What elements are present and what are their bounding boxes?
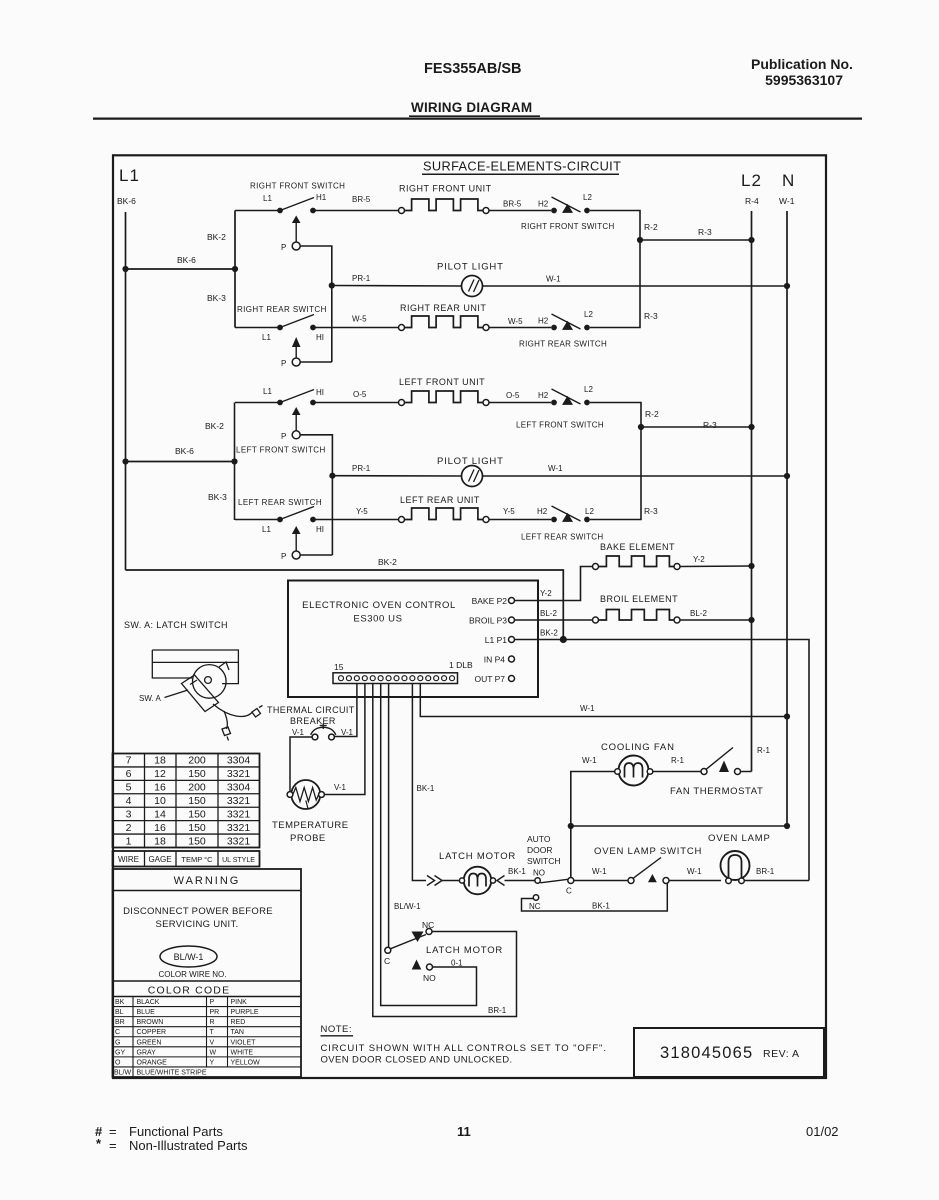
svg-text:LEFT REAR UNIT: LEFT REAR UNIT [400, 495, 480, 505]
svg-text:BROWN: BROWN [137, 1019, 164, 1026]
wire pin10 latch NO loop [381, 684, 477, 1006]
svg-text:Non-Illustrated Parts: Non-Illustrated Parts [129, 1138, 248, 1153]
svg-text:BK-2: BK-2 [378, 557, 397, 567]
svg-text:OUT P7: OUT P7 [474, 674, 505, 684]
junction [784, 283, 790, 289]
svg-text:L1: L1 [262, 333, 271, 342]
wire R-4 bus vertical [751, 211, 753, 772]
svg-text:3321: 3321 [227, 822, 251, 834]
svg-text:P: P [281, 432, 286, 441]
svg-text:5995363107: 5995363107 [765, 72, 843, 88]
svg-text:V-1: V-1 [341, 728, 354, 737]
svg-text:BR-5: BR-5 [503, 200, 522, 209]
wire R-3 to R-4 bus 2 [641, 426, 752, 428]
wire H1 to unit BR-5 [313, 210, 399, 212]
svg-text:WARNING: WARNING [174, 875, 241, 887]
junction [748, 237, 754, 243]
switch blade [552, 314, 581, 329]
resistor BAKE ELEMENT [598, 556, 674, 567]
wire [235, 402, 280, 404]
node L1 [277, 325, 283, 331]
switch plunger arrow [292, 526, 301, 534]
svg-text:Y: Y [210, 1059, 215, 1066]
svg-text:L1 P1: L1 P1 [485, 635, 507, 645]
svg-text:R: R [210, 1019, 215, 1026]
svg-text:THERMAL CIRCUIT: THERMAL CIRCUIT [267, 705, 355, 715]
svg-text:BLUE/WHITE STRIPE: BLUE/WHITE STRIPE [137, 1069, 207, 1076]
part number box [634, 1028, 824, 1077]
svg-text:R-1: R-1 [671, 756, 684, 765]
svg-text:DISCONNECT POWER BEFORE: DISCONNECT POWER BEFORE [123, 906, 273, 917]
svg-text:Y-5: Y-5 [356, 507, 368, 516]
svg-text:N: N [782, 171, 794, 190]
svg-text:PROBE: PROBE [290, 833, 326, 844]
svg-text:150: 150 [188, 835, 206, 847]
svg-text:150: 150 [188, 795, 206, 807]
node H2 [551, 325, 557, 331]
svg-text:SW. A: LATCH SWITCH: SW. A: LATCH SWITCH [124, 620, 228, 630]
svg-text:BROIL ELEMENT: BROIL ELEMENT [600, 594, 678, 604]
wire switch to oven lamp W-1 [669, 880, 721, 882]
svg-text:R-2: R-2 [645, 409, 659, 419]
svg-text:HI: HI [316, 333, 324, 342]
svg-text:V-1: V-1 [292, 728, 305, 737]
wire W-1 pilot 2 to W-1 bus [483, 475, 788, 477]
wire pin11 BR-1 latch NC loop [373, 684, 517, 1017]
junction [329, 282, 335, 288]
wire unit to H2 W-5 [489, 327, 551, 329]
svg-text:P: P [281, 243, 286, 252]
svg-text:G: G [115, 1039, 120, 1046]
resistor RIGHT REAR UNIT [404, 316, 483, 328]
svg-text:PURPLE: PURPLE [231, 1009, 259, 1016]
svg-text:5: 5 [126, 782, 132, 794]
svg-text:11: 11 [457, 1124, 471, 1139]
wire C to W-1 row [570, 826, 572, 878]
svg-text:HI: HI [316, 525, 324, 534]
svg-text:BROIL P3: BROIL P3 [469, 616, 507, 626]
svg-text:GAGE: GAGE [148, 855, 171, 864]
wire pin13 to thermal breaker [334, 684, 357, 737]
svg-text:W-1: W-1 [592, 867, 607, 876]
svg-text:WIRE: WIRE [118, 855, 139, 864]
warning box [113, 869, 302, 1077]
svg-text:Publication No.: Publication No. [751, 56, 853, 72]
svg-text:BK-1: BK-1 [508, 867, 526, 876]
latch switch SW.A drawing [152, 650, 262, 741]
switch blade [280, 390, 314, 403]
wire W-1 pilot to W-1 bus [483, 285, 788, 287]
svg-text:FAN THERMOSTAT: FAN THERMOSTAT [670, 786, 763, 797]
wire BK-6 upper branch [126, 268, 236, 270]
svg-text:W-1: W-1 [687, 867, 702, 876]
wire unit to H2 BR-5 [489, 210, 551, 212]
wire pin9 BL/W-1 to latch switch C [388, 684, 390, 948]
header rule [93, 117, 862, 119]
svg-text:16: 16 [154, 822, 166, 834]
svg-text:R-2: R-2 [644, 222, 658, 232]
svg-text:Y-2: Y-2 [693, 555, 705, 564]
svg-text:GY: GY [115, 1049, 125, 1056]
svg-text:3: 3 [126, 808, 132, 820]
thermistor temperature probe [291, 780, 320, 809]
svg-text:W-1: W-1 [546, 275, 561, 284]
wire [295, 223, 297, 242]
svg-text:GRAY: GRAY [137, 1049, 157, 1056]
svg-text:L1: L1 [262, 525, 271, 534]
svg-text:BL/W-1: BL/W-1 [174, 952, 204, 962]
svg-text:16: 16 [154, 782, 166, 794]
svg-text:R-3: R-3 [698, 227, 712, 237]
svg-text:2: 2 [126, 822, 132, 834]
motor M1 latch motor [464, 867, 492, 895]
motor M2 cooling fan [619, 756, 649, 786]
node H1 [310, 208, 316, 214]
wire BAKE P2 to element [515, 567, 593, 601]
svg-text:14: 14 [154, 808, 166, 820]
svg-text:NO: NO [423, 973, 436, 983]
svg-text:18: 18 [154, 755, 166, 767]
switch plunger arrow [292, 407, 301, 415]
svg-text:Y-2: Y-2 [540, 589, 552, 598]
svg-text:W-1: W-1 [779, 196, 795, 206]
junction [568, 823, 574, 829]
node H1 [310, 400, 316, 406]
connector chevrons [427, 876, 442, 886]
svg-text:L1: L1 [263, 387, 272, 396]
lamp PILOT LIGHT lower [462, 466, 483, 487]
svg-text:L2: L2 [741, 171, 762, 190]
svg-text:COOLING FAN: COOLING FAN [601, 742, 675, 753]
svg-text:PILOT LIGHT: PILOT LIGHT [437, 262, 504, 273]
junction [784, 713, 790, 719]
svg-text:150: 150 [188, 768, 206, 780]
diagram border frame [113, 155, 826, 1078]
wire Y-2 to R-4 bus [680, 565, 752, 568]
switch fan thermostat [701, 769, 707, 775]
svg-text:BR-1: BR-1 [756, 867, 775, 876]
node L2 [584, 208, 590, 214]
svg-text:BLACK: BLACK [137, 999, 160, 1006]
svg-text:SWITCH: SWITCH [527, 856, 561, 866]
svg-text:NC: NC [529, 902, 541, 911]
wire BL-2 to R-4 bus [680, 619, 752, 621]
svg-text:H1: H1 [316, 193, 327, 202]
svg-text:0-1: 0-1 [451, 959, 463, 968]
junction [748, 563, 754, 569]
switch blade [552, 506, 581, 521]
node L1 [277, 208, 283, 214]
junction [122, 266, 128, 272]
wire L2 to R-3 riser 2 [590, 427, 641, 520]
svg-text:TAN: TAN [231, 1029, 244, 1036]
wire [235, 327, 280, 329]
switch arrow [562, 204, 573, 213]
terminal NO lower latch [412, 960, 422, 970]
junction [748, 617, 754, 623]
lamp PILOT LIGHT upper [462, 276, 483, 297]
svg-text:200: 200 [188, 782, 206, 794]
svg-text:3304: 3304 [227, 755, 251, 767]
node H2 [551, 400, 557, 406]
svg-text:=: = [109, 1124, 117, 1139]
svg-text:15: 15 [334, 662, 344, 672]
wire pin5 W-1 row [420, 684, 787, 717]
wire L2 to R-2 drop 2 [590, 403, 641, 428]
resistor LEFT REAR UNIT [404, 508, 483, 520]
wire W-1 to cooling fan [571, 772, 615, 827]
svg-text:BL-2: BL-2 [690, 609, 707, 618]
svg-text:R-4: R-4 [745, 196, 759, 206]
svg-text:10: 10 [154, 795, 166, 807]
wire pin6 BK-1 to latch motor [412, 684, 426, 881]
svg-text:3321: 3321 [227, 768, 251, 780]
switch latch motor C-NC-NO [385, 947, 391, 953]
wire W-1 lamp row [571, 825, 787, 827]
svg-text:LEFT REAR SWITCH: LEFT REAR SWITCH [238, 498, 322, 507]
svg-text:1: 1 [126, 835, 132, 847]
svg-text:OVEN DOOR CLOSED AND UNLOCKED.: OVEN DOOR CLOSED AND UNLOCKED. [321, 1055, 513, 1066]
svg-text:3321: 3321 [227, 808, 251, 820]
wire motor to NO chevron [497, 876, 505, 886]
svg-text:LEFT FRONT SWITCH: LEFT FRONT SWITCH [236, 446, 326, 455]
wire BK-2 left-front bus [234, 403, 236, 521]
svg-text:AUTO: AUTO [527, 834, 551, 844]
svg-text:200: 200 [188, 755, 206, 767]
svg-text:=: = [109, 1138, 117, 1153]
svg-text:H2: H2 [538, 317, 549, 326]
svg-text:150: 150 [188, 808, 206, 820]
svg-text:R-1: R-1 [757, 746, 770, 755]
wire [295, 415, 297, 431]
svg-text:Functional Parts: Functional Parts [129, 1124, 223, 1139]
svg-text:BL: BL [115, 1009, 124, 1016]
node H1 [310, 517, 316, 523]
connector strip [333, 673, 458, 684]
svg-text:LATCH MOTOR: LATCH MOTOR [426, 945, 503, 956]
switch plunger arrow [292, 337, 301, 347]
wire gauge table [113, 754, 260, 848]
svg-text:W-5: W-5 [508, 317, 523, 326]
wire H1 to unit O-5 [313, 402, 399, 404]
switch arrow [562, 513, 573, 522]
svg-text:FES355AB/SB: FES355AB/SB [424, 61, 522, 77]
node L1 [277, 517, 283, 523]
svg-text:BL-2: BL-2 [540, 609, 557, 618]
junction [560, 636, 567, 643]
wire H1 to unit W-5 [313, 327, 399, 329]
wire pin12 V-1 to temperature probe [324, 684, 365, 795]
svg-text:R-3: R-3 [703, 420, 717, 430]
node H2 [551, 517, 557, 523]
svg-text:O-5: O-5 [353, 390, 367, 399]
svg-text:H2: H2 [538, 200, 549, 209]
svg-text:RIGHT REAR UNIT: RIGHT REAR UNIT [400, 303, 486, 313]
svg-text:6: 6 [126, 768, 132, 780]
svg-text:W-1: W-1 [580, 704, 595, 713]
svg-text:BL/W-1: BL/W-1 [394, 902, 421, 911]
wire PR-1 to pilot light 2 [332, 475, 461, 477]
svg-text:T: T [210, 1029, 215, 1036]
switch blade [280, 198, 314, 211]
wire L2 to R-2 drop [590, 211, 640, 241]
svg-text:3304: 3304 [227, 782, 251, 794]
svg-text:ES300 US: ES300 US [353, 614, 402, 625]
svg-text:V-1: V-1 [334, 783, 347, 792]
svg-text:BAKE P2: BAKE P2 [472, 596, 508, 606]
node H2 [551, 208, 557, 214]
svg-text:C: C [384, 956, 390, 966]
wire NC stub to oven lamp switch [522, 884, 668, 912]
svg-text:BK-2: BK-2 [207, 232, 226, 242]
svg-text:YELLOW: YELLOW [231, 1059, 261, 1066]
resistor BROIL ELEMENT [598, 610, 674, 621]
svg-text:VIOLET: VIOLET [231, 1039, 257, 1046]
svg-text:318045065: 318045065 [660, 1044, 753, 1062]
junction [784, 823, 790, 829]
svg-text:BK-2: BK-2 [205, 421, 224, 431]
svg-text:LEFT REAR SWITCH: LEFT REAR SWITCH [521, 533, 603, 542]
svg-text:BR-1: BR-1 [488, 1006, 507, 1015]
svg-text:BK: BK [115, 999, 125, 1006]
switch blade [552, 389, 581, 404]
breaker CB1 [312, 734, 318, 740]
svg-text:18: 18 [154, 835, 166, 847]
svg-text:BLUE: BLUE [137, 1009, 156, 1016]
svg-text:NOTE:: NOTE: [321, 1024, 353, 1035]
svg-text:BREAKER: BREAKER [290, 716, 336, 726]
svg-text:BK-6: BK-6 [175, 446, 194, 456]
svg-text:SW. A: SW. A [139, 694, 161, 703]
svg-text:W: W [210, 1049, 217, 1056]
svg-text:IN P4: IN P4 [484, 655, 506, 665]
svg-text:BK-3: BK-3 [208, 492, 227, 502]
svg-text:P: P [281, 552, 286, 561]
svg-text:L2: L2 [584, 385, 593, 394]
svg-text:LEFT FRONT UNIT: LEFT FRONT UNIT [399, 377, 485, 387]
svg-text:BK-6: BK-6 [117, 196, 136, 206]
wire C to oven lamp switch W-1 [574, 880, 628, 882]
svg-text:Y-5: Y-5 [503, 507, 515, 516]
svg-text:RIGHT FRONT UNIT: RIGHT FRONT UNIT [399, 184, 492, 194]
svg-text:01/02: 01/02 [806, 1124, 839, 1139]
svg-text:PR-1: PR-1 [352, 274, 371, 283]
svg-text:LATCH MOTOR: LATCH MOTOR [439, 851, 516, 862]
switch arrow [562, 396, 573, 405]
svg-text:TEMP °C: TEMP °C [181, 855, 213, 864]
svg-text:ORANGE: ORANGE [137, 1059, 168, 1066]
svg-text:PINK: PINK [231, 999, 248, 1006]
resistor RIGHT FRONT UNIT [404, 199, 483, 211]
svg-text:O-5: O-5 [506, 391, 520, 400]
wire [295, 534, 297, 551]
svg-text:1 DLB: 1 DLB [449, 660, 473, 670]
wire R-3 to R-4 bus [640, 239, 752, 241]
lamp oven lamp [721, 851, 750, 880]
terminal NC auto door [533, 895, 538, 900]
junction [748, 424, 754, 430]
wire BROIL P3 to element [515, 619, 594, 621]
wire P to PR-1 bus 2 [300, 435, 332, 555]
svg-text:4: 4 [126, 795, 132, 807]
junction [232, 266, 238, 272]
svg-text:BK-1: BK-1 [417, 784, 435, 793]
switch blade [280, 315, 314, 328]
svg-text:L1: L1 [263, 194, 272, 203]
svg-text:RIGHT FRONT SWITCH: RIGHT FRONT SWITCH [250, 182, 345, 191]
wire W-1 bus vertical [786, 211, 788, 826]
wire gauge table header [113, 851, 260, 867]
wire BK-2 bottom of surface section [126, 570, 564, 640]
svg-text:O: O [115, 1059, 121, 1066]
junction [122, 458, 128, 464]
wire P to PR-1 bus [300, 361, 332, 363]
node H1 [310, 325, 316, 331]
svg-text:UL STYLE: UL STYLE [222, 857, 255, 864]
svg-text:OVEN LAMP: OVEN LAMP [708, 833, 771, 844]
wire L1 bus BK-6 vertical [125, 212, 127, 570]
switch plunger arrow [292, 216, 301, 224]
svg-text:PR: PR [210, 1009, 220, 1016]
wire BK-2 right-front bus [234, 211, 236, 328]
junction [784, 473, 790, 479]
node L2 [584, 400, 590, 406]
svg-text:COLOR WIRE NO.: COLOR WIRE NO. [158, 970, 226, 979]
junction [231, 458, 237, 464]
svg-text:BK-2: BK-2 [540, 629, 558, 638]
wire [235, 210, 280, 212]
svg-text:BR: BR [115, 1019, 125, 1026]
wire P to PR-1 bus 2 lower [300, 554, 332, 556]
junction [637, 237, 643, 243]
svg-text:GREEN: GREEN [137, 1039, 162, 1046]
svg-text:WHITE: WHITE [231, 1049, 254, 1056]
wire lamp BR-1 to L1 P1 loop [744, 880, 809, 882]
junction [638, 424, 644, 430]
svg-text:BL/W: BL/W [114, 1069, 132, 1076]
svg-text:COLOR CODE: COLOR CODE [148, 985, 231, 997]
svg-text:7: 7 [126, 755, 132, 767]
svg-text:L1: L1 [119, 166, 140, 185]
svg-text:L2: L2 [584, 310, 593, 319]
node L1 [277, 400, 283, 406]
svg-text:C: C [566, 887, 572, 896]
wire P to PR-1 bus [300, 246, 332, 362]
svg-text:BAKE ELEMENT: BAKE ELEMENT [600, 542, 675, 552]
junction [329, 473, 335, 479]
switch blade [552, 197, 581, 212]
svg-text:REV: A: REV: A [763, 1048, 799, 1060]
wire thermostat to R-4 bus [741, 771, 752, 773]
wire [235, 519, 280, 521]
svg-text:LEFT FRONT SWITCH: LEFT FRONT SWITCH [516, 421, 604, 430]
svg-text:BR-5: BR-5 [352, 195, 371, 204]
svg-text:L2: L2 [583, 193, 592, 202]
svg-text:RIGHT REAR SWITCH: RIGHT REAR SWITCH [237, 305, 327, 314]
wire BK-6 lower branch [126, 461, 235, 463]
wire fan to thermostat R-1 [653, 771, 701, 773]
wire H1 to unit Y-5 [313, 519, 399, 521]
svg-text:BK-3: BK-3 [207, 293, 226, 303]
svg-text:PR-1: PR-1 [352, 464, 371, 473]
svg-text:RIGHT FRONT SWITCH: RIGHT FRONT SWITCH [521, 222, 615, 231]
wire unit to H2 O-5 [489, 402, 551, 404]
svg-text:RIGHT REAR SWITCH: RIGHT REAR SWITCH [519, 340, 607, 349]
wire [295, 347, 297, 358]
wire breaker to probe [290, 737, 312, 792]
svg-text:TEMPERATURE: TEMPERATURE [272, 820, 349, 831]
svg-text:V: V [210, 1039, 215, 1046]
